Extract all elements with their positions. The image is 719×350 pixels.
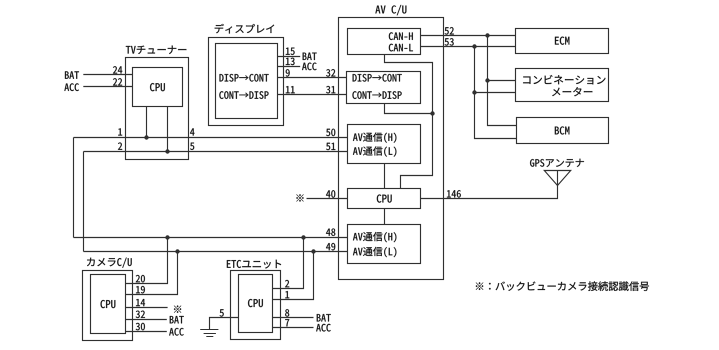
- display inner box: [216, 44, 278, 119]
- AV DISP->CONT box: [347, 72, 421, 104]
- wire ETC pin8: [273, 317, 314, 319]
- pin 40 label: [326, 190, 335, 197]
- wire pin 146 to GPS antenna: [421, 171, 558, 199]
- pin 32 label (AV): [326, 69, 335, 76]
- pin 5 label: [190, 143, 194, 150]
- camera outer box: [83, 271, 133, 341]
- pin 1 label (ETC): [285, 291, 289, 298]
- wire net AV-L: TV pin2 to AV pin51: [84, 151, 348, 153]
- wire display pin13: [278, 66, 301, 68]
- wire ETC pin7: [273, 327, 314, 329]
- AV comm L label 2: [353, 247, 396, 257]
- footnote asterisk legend: [476, 281, 649, 291]
- pin 49 label: [326, 243, 335, 250]
- display outer box: [209, 38, 284, 126]
- wire camera pin14: [126, 307, 168, 309]
- AV comm box 2: [348, 225, 421, 264]
- asterisk ref mark (pin 14): [174, 306, 181, 313]
- wire cpu U1 pin to net AV-L: [167, 107, 169, 152]
- pin 51 label: [326, 143, 335, 150]
- pin 9 label: [286, 69, 290, 76]
- wire net AV-H left drop: [73, 138, 75, 238]
- combination meter box: [516, 69, 609, 102]
- pin 19 label: [136, 286, 145, 293]
- BCM label: [555, 126, 570, 134]
- display CONT->DISP label: [219, 91, 268, 99]
- pin 24 label: [113, 66, 122, 73]
- combination meter label line2: [552, 87, 592, 96]
- wire CAN-H pin52: [421, 35, 516, 37]
- label BAT (display): [303, 53, 317, 60]
- wire pin 40: [307, 198, 348, 200]
- wire BAT to TV pin 24: [83, 74, 132, 76]
- camera cpu U3 box: [91, 275, 126, 334]
- pin 20 label: [136, 275, 145, 282]
- wire net AV-L left drop: [83, 152, 85, 252]
- pin 31 label (AV): [326, 86, 335, 93]
- label BAT (ETC): [317, 314, 331, 321]
- wire AV cpu to AV comm box 2: [384, 209, 386, 225]
- wire net AV-H: to AV pin48: [74, 237, 348, 239]
- pin 1 label: [118, 128, 122, 135]
- pin 22 label: [113, 78, 122, 85]
- pin 48 label: [326, 228, 335, 235]
- ETC cpu U4 box: [239, 275, 273, 333]
- junction pin20/net AV-H: [165, 235, 169, 239]
- AV cpu U2 box: [348, 189, 421, 209]
- pin 14 label: [136, 299, 145, 306]
- ETC outer box: [231, 271, 281, 340]
- junction cpu U1/net AV-H: [144, 135, 148, 139]
- wire ETC pin5 to ground: [210, 318, 239, 330]
- wire AV DISP box to node A: [385, 104, 433, 114]
- camera cpu U3 label: [101, 300, 116, 308]
- wire CAN-H to meter: [488, 80, 516, 82]
- AV comm H label 2: [353, 232, 396, 242]
- ground symbol: [200, 330, 218, 337]
- ECM box: [516, 29, 609, 54]
- pin 5 label (ETC): [220, 309, 224, 316]
- wire node A to AV cpu: [401, 114, 433, 189]
- AV comm H label 1: [353, 132, 396, 142]
- AV C/U outer box: [339, 18, 444, 280]
- asterisk ref mark (pin 40): [296, 194, 303, 201]
- wire display pin15: [278, 56, 301, 58]
- label BAT (camera): [170, 316, 184, 323]
- CAN-L label: [389, 44, 413, 52]
- AV comm box 1: [348, 125, 421, 164]
- wire display pin11 to AV pin31: [278, 94, 347, 96]
- AV DISP->CONT label: [353, 74, 402, 82]
- ETC unit label: [227, 260, 281, 269]
- label ACC (TV tuner): [64, 83, 79, 91]
- pin 146 label: [447, 190, 461, 197]
- label ACC (ETC): [316, 324, 331, 332]
- display DISP->CONT label: [220, 74, 269, 82]
- wire camera pin20 to net AV-H: [126, 238, 168, 284]
- TV tuner unit label: [126, 46, 186, 54]
- pin 13 label: [286, 58, 295, 65]
- junction CAN-H to meter: [485, 78, 489, 82]
- combination meter label line1: [523, 75, 605, 84]
- junction pin1/net AV-L: [311, 249, 315, 253]
- wire net AV-H: TV pin1 to AV pin50: [74, 137, 348, 139]
- wire AV comm box1 to AV cpu: [384, 164, 386, 189]
- pin 11 label: [286, 86, 295, 93]
- wire camera pin32: [126, 319, 167, 321]
- junction node A: [430, 111, 434, 115]
- pin 15 label: [286, 48, 295, 55]
- pin 7 label: [285, 319, 289, 326]
- wire CAN box to node A: [385, 55, 433, 114]
- wire cpu U1 pin to net AV-H: [146, 107, 148, 138]
- cpu U1 label: [150, 83, 165, 91]
- pin 2 label: [118, 142, 122, 149]
- display unit label: [215, 24, 275, 34]
- wire ACC to TV pin 22: [83, 86, 132, 88]
- pin 2 label (ETC): [285, 280, 289, 287]
- label BAT (TV tuner): [65, 71, 79, 78]
- pin 4 label: [190, 128, 194, 135]
- label ACC (display): [302, 63, 317, 71]
- AV cpu U2 label: [377, 195, 392, 203]
- pin 52 label: [445, 27, 454, 34]
- cpu U1 (TV tuner) box: [133, 68, 183, 107]
- AV C/U unit label: [375, 5, 406, 15]
- pin 50 label: [326, 129, 335, 136]
- pin 8 label: [285, 309, 289, 316]
- wire ETC pin1 to net AV-L: [273, 252, 314, 300]
- wire CAN-L to meter: [475, 92, 516, 94]
- camera C/U unit label: [87, 258, 132, 268]
- TV tuner box: [126, 58, 189, 160]
- wire display pin9 to AV pin32: [278, 77, 347, 79]
- GPS antenna label: [530, 159, 584, 167]
- ECM label: [555, 37, 569, 45]
- CAN-H label: [389, 32, 413, 40]
- wire net AV-L: to AV pin49: [84, 251, 348, 253]
- AV CONT->DISP label: [353, 91, 402, 99]
- BCM box: [517, 118, 609, 144]
- pin 32 label (camera): [136, 311, 145, 318]
- ETC cpu U4 label: [248, 299, 263, 307]
- pin 53 label: [445, 38, 454, 45]
- junction CAN-H branch: [485, 33, 489, 37]
- wire ETC pin2 to net AV-H: [273, 238, 304, 289]
- junction CAN-L branch: [472, 44, 476, 48]
- wire camera pin30: [126, 331, 167, 333]
- label ACC (camera): [169, 328, 184, 336]
- AV comm L label 1: [353, 146, 396, 156]
- pin 30 label: [136, 323, 145, 330]
- junction pin19/net AV-L: [175, 249, 179, 253]
- junction CAN-L to meter: [472, 90, 476, 94]
- CAN transceiver box: [348, 29, 421, 55]
- wire CAN-H branch down to BCM: [488, 36, 517, 126]
- GPS antenna symbol: [544, 171, 570, 186]
- wire CAN-L branch down to BCM: [475, 47, 517, 139]
- wire camera pin19 to net AV-L: [126, 252, 178, 295]
- junction pin2/net AV-H: [301, 235, 305, 239]
- junction cpu U1/net AV-L: [165, 149, 169, 153]
- wire CAN-L pin53: [421, 46, 516, 48]
